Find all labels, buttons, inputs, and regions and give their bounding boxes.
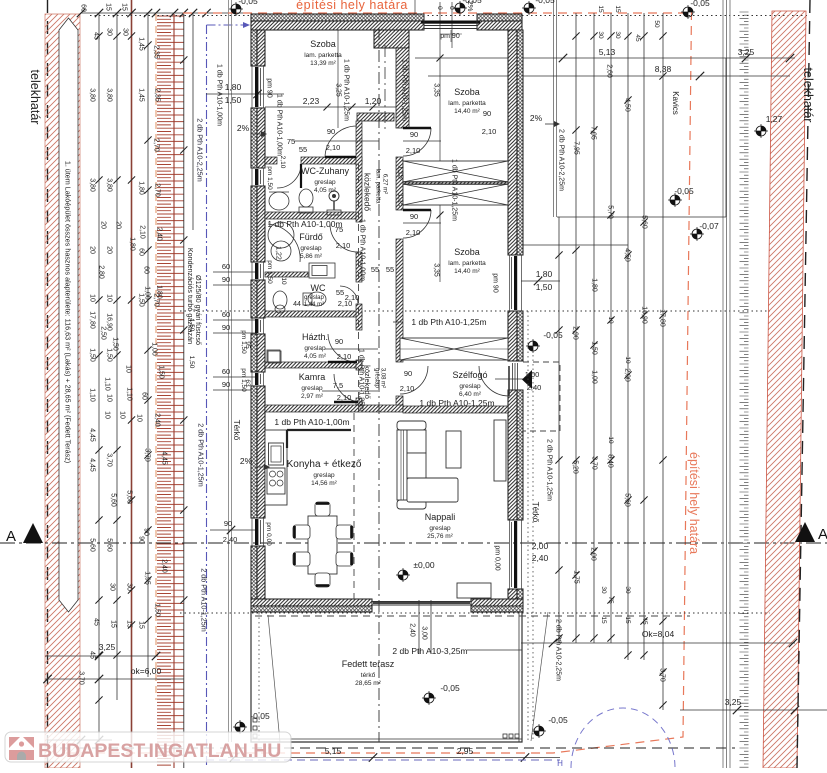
svg-text:1 db Pth A10-1,00m: 1 db Pth A10-1,00m [216,64,223,126]
svg-text:1 db Pth A10-1,00m: 1 db Pth A10-1,00m [276,94,283,156]
svg-text:2,40: 2,40 [527,383,542,392]
svg-text:3,00: 3,00 [421,626,428,640]
svg-text:20: 20 [115,221,122,229]
svg-text:BUDAPEST.INGATLAN.HU: BUDAPEST.INGATLAN.HU [38,740,281,762]
svg-text:1,80: 1,80 [138,181,145,195]
svg-text:10: 10 [106,394,113,402]
svg-text:2,10: 2,10 [336,241,351,250]
szelfogo bottom wall [403,406,508,413]
left dimension numbers [78,3,168,685]
svg-text:Szoba: Szoba [454,247,480,257]
corridor axis dash-dot [378,28,380,742]
site boundary label right rotated [687,452,701,554]
svg-text:2,10: 2,10 [337,393,352,402]
svg-text:építési hely határa: építési hely határa [296,0,408,12]
svg-text:10: 10 [607,436,614,444]
svg-text:5,20: 5,20 [572,460,579,474]
svg-text:pm 1,50: pm 1,50 [266,260,273,284]
svg-text:greslap: greslap [459,383,481,390]
svg-text:1,50: 1,50 [138,293,145,307]
svg-text:1,80: 1,80 [156,285,163,299]
section line A-A [0,542,827,544]
svg-text:1 db Pth A10-1,25m: 1 db Pth A10-1,25m [358,349,365,411]
svg-text:1,50: 1,50 [225,95,242,105]
svg-text:1. ütem Lakóépület összes hasz: 1. ütem Lakóépület összes hasznos alapte… [63,161,72,463]
room divider thin wall [403,182,508,185]
svg-text:pm 0,00: pm 0,00 [265,522,272,546]
svg-text:greslap: greslap [429,525,451,532]
lintel notes rotated inside [216,30,562,681]
svg-text:építési hely határa: építési hely határa [687,452,701,554]
top dimension baseline left [77,9,251,17]
svg-text:2,23: 2,23 [303,96,320,106]
svg-text:1,80: 1,80 [225,82,242,92]
lintel notes horizontal [267,219,494,427]
svg-text:2,10: 2,10 [482,127,497,136]
svg-text:2,50: 2,50 [100,326,107,340]
telekhatar dashed line right [797,0,810,768]
svg-text:2 db Pth A10-1,25m: 2 db Pth A10-1,25m [199,568,208,632]
bottom dashed lines [60,747,735,749]
entrance door arc [479,366,509,396]
dim line 3,25 left [45,642,160,660]
svg-text:Kamra: Kamra [299,372,326,382]
svg-text:pm 0,00: pm 0,00 [494,545,501,570]
svg-text:1,50: 1,50 [106,348,113,362]
svg-text:1,80: 1,80 [591,278,598,292]
svg-text:10: 10 [125,365,132,373]
wardrobe band 2 [403,184,508,205]
svg-text:WC: WC [311,283,326,293]
svg-text:28,65 m²: 28,65 m² [355,680,381,687]
svg-text:60: 60 [138,248,145,256]
svg-text:Házth.: Házth. [302,332,328,342]
telekhatar label right [801,68,815,123]
shower wc-zuhany [327,191,341,215]
svg-text:H: H [557,759,563,768]
svg-text:1,10: 1,10 [89,388,96,402]
svg-text:ok=6,00: ok=6,00 [131,666,162,676]
section marker A right [795,522,827,543]
svg-text:45: 45 [89,651,96,659]
svg-text:90: 90 [410,130,418,139]
svg-text:14,40 m²: 14,40 m² [454,108,480,115]
washer hazth [268,351,281,363]
svg-text:30: 30 [109,583,116,591]
left chain tick marks [95,32,187,703]
svg-text:1,50: 1,50 [89,348,96,362]
dotted reference line top [90,15,810,17]
kitchen door dim 90/2,40 [210,519,258,544]
svg-text:17,80: 17,80 [89,311,96,329]
svg-text:75: 75 [335,225,343,234]
terrace slab outline [251,612,522,742]
svg-text:15: 15 [614,5,621,13]
svg-text:1,15: 1,15 [397,165,404,179]
right chain tick marks [555,32,666,708]
door arc hazth [325,334,378,362]
svg-text:3,35: 3,35 [433,263,440,277]
svg-text:telekhatár: telekhatár [28,70,42,125]
svg-text:Nappali: Nappali [425,512,456,522]
svg-text:2,80: 2,80 [98,265,105,279]
sofa nappali [397,421,461,509]
toilet wc-zuhany [299,189,313,213]
svg-text:1,20: 1,20 [365,96,382,106]
interior load wall vertical (rooms divider) [396,48,409,408]
svg-text:90: 90 [335,337,343,346]
svg-text:2,70: 2,70 [154,183,161,197]
svg-text:90: 90 [410,212,418,221]
surveyor ruler band right [740,12,749,767]
svg-text:2,10: 2,10 [326,143,341,152]
svg-text:3,70: 3,70 [106,453,113,467]
svg-text:-0,05: -0,05 [440,683,460,693]
svg-text:1,80: 1,80 [536,269,553,279]
svg-text:2 db Pth A10-2,25m: 2 db Pth A10-2,25m [555,619,562,681]
blue dashed utility bottom [206,759,563,768]
window dim pair 60/90 b [213,310,257,333]
property boundary label left (telekhatar) [28,70,42,125]
svg-text:2,40: 2,40 [156,227,163,241]
svg-text:15: 15 [597,5,604,13]
svg-text:14,56 m²: 14,56 m² [311,480,337,487]
svg-text:3,25: 3,25 [99,642,116,652]
svg-text:greslap: greslap [313,472,335,479]
svg-text:60: 60 [143,266,150,274]
svg-text:A: A [6,528,16,545]
svg-text:6,40 m²: 6,40 m² [459,391,482,398]
svg-text:1,10: 1,10 [126,387,133,401]
svg-text:2,40: 2,40 [161,559,168,573]
svg-text:16,90: 16,90 [106,313,113,331]
svg-text:15: 15 [110,620,117,628]
svg-text:4,50: 4,50 [624,98,631,112]
door arc kamra [322,374,378,402]
svg-text:Konyha + étkező: Konyha + étkező [287,459,362,470]
svg-text:2,10: 2,10 [406,146,421,155]
vanity furdo [309,263,335,278]
boiler flue note [186,248,203,345]
svg-text:10: 10 [136,414,143,422]
svg-text:Ø125/80 gyári füstcső: Ø125/80 gyári füstcső [194,275,203,345]
door arc wc-zuhany [277,164,301,188]
svg-text:14,40 m²: 14,40 m² [454,268,480,275]
corridor top beam [357,113,394,121]
svg-text:1,50: 1,50 [158,365,165,379]
svg-text:5,60: 5,60 [89,538,96,552]
svg-text:55: 55 [336,288,344,297]
svg-text:Fedett terasz: Fedett terasz [342,659,395,669]
door arc szoba1 [294,126,379,158]
door arc furdo [330,224,358,252]
svg-text:2,95: 2,95 [457,746,474,756]
surveyor tick band (fence symbol) [157,16,184,765]
svg-text:-0,05: -0,05 [548,715,568,725]
dark red line in band [173,14,175,768]
svg-text:63: 63 [244,379,251,387]
outer wall top (insulation + masonry) [251,14,522,30]
svg-text:1,15: 1,15 [397,193,404,207]
window dim 1,80/1,50 [206,82,284,105]
svg-text:55: 55 [299,145,307,154]
svg-text:3,70: 3,70 [144,448,151,462]
svg-text:15: 15 [624,616,631,624]
svg-text:20: 20 [100,221,107,229]
svg-text:1 db Pth A10-1,00m: 1 db Pth A10-1,00m [267,219,342,229]
svg-text:1 db Pth A10-1,00m: 1 db Pth A10-1,00m [359,219,366,281]
svg-text:10: 10 [104,411,111,419]
svg-text:Térkő: Térkő [232,420,241,441]
svg-text:greslap: greslap [300,245,322,252]
svg-text:3,25: 3,25 [335,83,342,97]
site boundary label top [296,0,408,12]
svg-text:2 db Pth A10-1,25m: 2 db Pth A10-1,25m [196,423,205,487]
dining table [293,502,353,587]
svg-text:1,45: 1,45 [138,88,145,102]
bottom dim line 5,15 / 2,95 [228,746,560,762]
svg-text:90: 90 [483,109,491,118]
svg-text:90: 90 [404,369,412,378]
svg-text:5,60: 5,60 [110,493,117,507]
blue line labels [195,118,208,632]
bathtub furdo [268,222,300,262]
terrace dotted edges [259,311,533,742]
svg-text:greslap: greslap [314,179,336,186]
outer wall right [508,30,523,599]
svg-text:1,00: 1,00 [525,370,540,379]
svg-text:1,00: 1,00 [151,342,158,356]
svg-text:Ok=8,04: Ok=8,04 [642,629,675,639]
svg-text:lam. parketta: lam. parketta [374,169,380,204]
svg-text:5,86 m²: 5,86 m² [300,253,323,260]
svg-text:10: 10 [280,277,287,285]
svg-text:1,22: 1,22 [275,246,282,260]
svg-text:2,70: 2,70 [153,138,160,152]
svg-text:2 db Pth A10-1,25m: 2 db Pth A10-1,25m [546,439,553,501]
svg-text:2,40: 2,40 [154,413,161,427]
svg-text:3,70: 3,70 [78,671,85,685]
svg-text:45: 45 [93,618,100,626]
dotted reference line mid [180,310,770,312]
svg-text:pm 90: pm 90 [266,78,273,98]
svg-text:-0,05: -0,05 [690,0,710,8]
blue dashed arc [571,708,675,768]
svg-text:90: 90 [327,127,335,136]
svg-text:25,76 m²: 25,76 m² [427,533,453,540]
svg-text:2,35: 2,35 [153,45,160,59]
svg-text:térkő: térkő [361,672,376,679]
svg-text:95: 95 [244,341,251,349]
svg-text:1,50: 1,50 [154,603,161,617]
phase-1 area text channel [59,18,78,612]
svg-text:2,40: 2,40 [532,553,549,563]
level markers [229,0,768,738]
dim line ok=6,00 [43,666,184,683]
svg-text:30: 30 [122,28,129,36]
svg-text:30: 30 [597,31,604,39]
svg-text:Fürdő: Fürdő [299,232,323,242]
top wall stub (1,20 recess) [374,30,409,48]
svg-text:60: 60 [222,262,230,271]
svg-text:Szélfogó: Szélfogó [452,370,487,380]
svg-text:2,10: 2,10 [279,156,286,169]
svg-text:3,25: 3,25 [725,697,742,707]
svg-text:30: 30 [106,28,113,36]
svg-text:7,95: 7,95 [573,141,580,155]
tv board nappali [494,420,506,481]
kitchen axis dashed [354,164,359,599]
svg-text:1 db Pth A10-1,00m: 1 db Pth A10-1,00m [274,417,349,427]
svg-text:15: 15 [138,621,145,629]
svg-text:Kavics: Kavics [671,91,680,115]
svg-text:55: 55 [386,265,394,274]
svg-text:2%: 2% [240,456,253,466]
svg-text:2,97 m²: 2,97 m² [301,393,324,400]
percent slope labels [237,1,560,470]
svg-text:lam. parketta: lam. parketta [448,100,486,107]
svg-text:telekhatár: telekhatár [801,68,815,123]
svg-text:2,10: 2,10 [400,384,415,393]
svg-text:4,05 m²: 4,05 m² [304,353,327,360]
red hatched strip right [763,11,806,768]
svg-text:-0,05: -0,05 [462,0,482,5]
svg-text:2 db Pth A10-2,25m: 2 db Pth A10-2,25m [558,129,565,191]
terrace door dim lines [392,600,522,656]
svg-text:5,13: 5,13 [599,47,616,57]
svg-text:0: 0 [436,6,443,10]
svg-text:90: 90 [222,380,230,389]
svg-text:greslap: greslap [301,385,323,392]
svg-text:4,50: 4,50 [624,248,631,262]
svg-text:WC-Zuhany: WC-Zuhany [301,166,350,176]
svg-text:4,05 m²: 4,05 m² [314,187,337,194]
double utility lines [229,0,232,742]
svg-text:1,80: 1,80 [129,237,136,251]
svg-text:2%: 2% [530,113,543,123]
svg-text:50: 50 [653,20,660,28]
svg-text:4,45: 4,45 [89,428,96,442]
door arc szoba3 [403,210,441,238]
svg-text:2,60: 2,60 [606,64,613,78]
svg-text:10: 10 [119,411,126,419]
svg-text:30: 30 [614,31,621,39]
outer wall left [251,30,265,599]
svg-text:90: 90 [222,323,230,332]
svg-text:pm 90: pm 90 [492,273,499,293]
svg-text:-0,07: -0,07 [699,221,719,231]
svg-text:2,10: 2,10 [139,225,146,239]
svg-text:lam. parketta: lam. parketta [304,52,342,59]
flue axis short [384,45,386,130]
svg-text:15: 15 [600,616,607,624]
svg-text:60: 60 [222,367,230,376]
telekhatar dashed boundary line left [47,0,49,768]
svg-text:6,27 m²: 6,27 m² [381,174,387,194]
terrace posts [253,718,519,738]
svg-text:2,40: 2,40 [409,623,416,637]
orange dashed line [155,14,157,700]
svg-text:44: 44 [293,301,301,308]
svg-text:Szoba: Szoba [310,39,336,49]
svg-text:10: 10 [624,356,631,364]
svg-text:45: 45 [634,34,641,42]
svg-text:közlekedő: közlekedő [362,173,372,212]
svg-text:1,45: 1,45 [138,37,145,51]
svg-text:-0,05: -0,05 [543,330,563,340]
brown utility line [131,0,133,768]
sideboard nappali [457,583,491,598]
svg-text:1,50: 1,50 [188,356,195,369]
svg-text:4,45: 4,45 [161,451,168,465]
svg-text:3,25: 3,25 [738,47,755,57]
svg-text:2,10: 2,10 [345,293,360,302]
svg-text:5,70: 5,70 [607,205,614,219]
svg-text:2%: 2% [237,123,250,133]
svg-text:5,60: 5,60 [624,493,631,507]
svg-text:3,80: 3,80 [89,178,96,192]
svg-text:8,38: 8,38 [655,64,672,74]
svg-text:2,00: 2,00 [624,368,631,382]
svg-text:2 db Pth A10-2,25m: 2 db Pth A10-2,25m [195,118,204,182]
svg-text:lam. parketta: lam. parketta [448,260,486,267]
blue gas service dash-dot line [207,22,251,768]
svg-text:2,35: 2,35 [154,88,161,102]
top wall window lintel [421,14,480,30]
window dim pair 60/90 c [213,367,257,390]
svg-text:1,44 m²: 1,44 m² [304,302,324,308]
svg-text:55: 55 [371,265,379,274]
svg-text:-0,05: -0,05 [238,0,258,6]
svg-text:60: 60 [80,4,87,12]
svg-text:30: 30 [600,586,607,594]
door arc wc [340,286,358,304]
svg-text:A: A [818,526,827,543]
building site boundary red dashed [60,11,692,753]
svg-text:5,15: 5,15 [325,746,342,756]
entrance porch dashed [523,362,560,431]
red hatched setback strip left [45,14,80,768]
toilet wc [303,292,326,306]
svg-text:30: 30 [624,586,631,594]
room labels [232,39,540,687]
terrace diagonal drain lines [268,612,548,742]
right dim labels [532,5,783,707]
left wall windows [252,66,264,546]
door arc szelfogo-szoba [400,366,428,394]
entrance door threshold lines [495,363,530,390]
outer wall bottom [251,599,523,612]
basin wc [273,291,287,313]
svg-text:greslap: greslap [373,368,379,388]
svg-text:2,00: 2,00 [532,541,549,551]
svg-text:2,10: 2,10 [337,352,352,361]
svg-text:1 db Pth A10-1,25m: 1 db Pth A10-1,25m [343,59,350,121]
svg-text:5,60: 5,60 [106,538,113,552]
left dimension chain lines [99,13,193,742]
terrace inner dashed [255,615,690,617]
right dimension chain lines [559,13,663,710]
bathroom block walls [265,121,403,412]
svg-text:60: 60 [141,392,148,400]
entrance arrow [522,370,532,389]
svg-text:1,10: 1,10 [104,377,111,391]
door dimension labels [188,83,541,402]
svg-text:2 db Pth A10-3,25m: 2 db Pth A10-3,25m [392,646,467,656]
svg-text:1,50: 1,50 [188,319,195,332]
wall with window band 3 [400,338,508,360]
wardrobe band 1 [403,161,508,182]
